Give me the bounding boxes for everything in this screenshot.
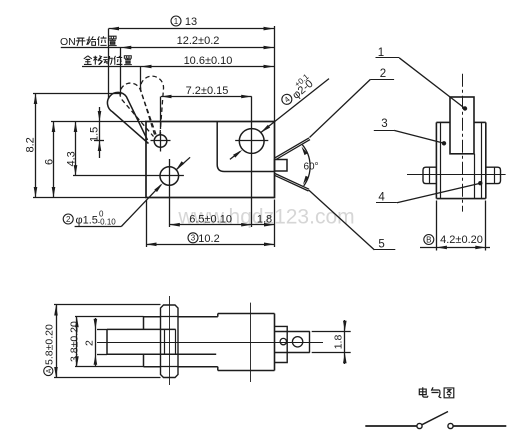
side view lever slot line bbox=[474, 154, 476, 199]
svg-text:5: 5 bbox=[378, 239, 384, 251]
extension line y=175.6 through hole 2 bbox=[73, 175, 184, 177]
electrical diagram title bbox=[419, 387, 428, 397]
front view switch body outline bbox=[146, 122, 275, 198]
hole 4 crosshair horizontal bbox=[235, 140, 268, 142]
lever dashed ON position teardrop bbox=[120, 83, 156, 136]
svg-text:φ1.5: φ1.5 bbox=[76, 215, 98, 227]
hole 2 mounting phi1.5 bbox=[160, 167, 179, 186]
side view body outline bbox=[436, 122, 485, 198]
bottom dim 3.8 line bbox=[76, 317, 78, 367]
leader diagonal from hole 4 upper-right bbox=[261, 79, 329, 133]
extension line y=93.5 lever top bbox=[33, 93, 121, 95]
extension line x=110.7 for dim 13 bbox=[108, 29, 110, 99]
svg-text:1: 1 bbox=[174, 17, 179, 26]
svg-text:1.5: 1.5 bbox=[89, 127, 101, 142]
svg-text:13: 13 bbox=[185, 16, 197, 28]
terminal small hole bbox=[280, 338, 286, 344]
label 4 phi2 rotated with tolerance bbox=[277, 72, 317, 110]
svg-text:10.2: 10.2 bbox=[198, 233, 219, 245]
leader diagonal from hole 2 upper-right arrow bbox=[176, 157, 190, 170]
svg-text:6: 6 bbox=[44, 159, 56, 165]
left dim 4.3 bbox=[75, 122, 77, 176]
leader diagonal to hole 4 lower-left arrow bbox=[230, 152, 240, 160]
bottom view plate outline bbox=[144, 316, 161, 318]
dimension 13 label with circled 1 bbox=[171, 16, 181, 26]
switch contact right bbox=[448, 423, 453, 428]
side dim B 4.2 line outside arrows bbox=[420, 247, 490, 249]
svg-text:1.8: 1.8 bbox=[333, 335, 345, 350]
leader diagonal to hole 2 lower-left arrow bbox=[121, 185, 161, 227]
bottom right dim 1.8 outside arrows bbox=[344, 320, 346, 364]
bottom dim 2 outside arrows bbox=[95, 318, 97, 366]
side view inner walls bbox=[440, 122, 442, 198]
svg-text:3.8±0.20: 3.8±0.20 bbox=[69, 321, 81, 362]
left dim 6 bbox=[53, 122, 55, 198]
svg-text:12.2±0.2: 12.2±0.2 bbox=[177, 35, 220, 47]
bottom view terminal bbox=[275, 331, 310, 333]
side dim B 4.2 extension lines bbox=[436, 201, 438, 251]
svg-text:4.2±0.20: 4.2±0.20 bbox=[440, 234, 483, 246]
internal step with fillet bbox=[217, 122, 274, 172]
side view right terminal bbox=[486, 167, 501, 183]
svg-text:60°: 60° bbox=[303, 161, 318, 172]
svg-text:8.2: 8.2 bbox=[25, 137, 37, 152]
dimension 7.2 line bbox=[161, 96, 252, 98]
dimension 12.2 line bbox=[61, 47, 274, 49]
svg-text:10.6±0.10: 10.6±0.10 bbox=[184, 55, 233, 67]
svg-text:3: 3 bbox=[381, 118, 387, 130]
bottom view horizontal centerline bbox=[97, 342, 323, 344]
terminal large hole bbox=[292, 337, 302, 347]
bottom view right step bbox=[275, 326, 288, 362]
dim 2 extension lines bbox=[97, 329, 107, 331]
bottom dim 10.2 line bbox=[146, 244, 275, 246]
side view lever bbox=[450, 97, 474, 154]
extension lines below body for 10.2 bbox=[146, 200, 148, 248]
spring wire upper position double line bbox=[275, 138, 309, 158]
extension line top at body right edge bbox=[274, 26, 276, 122]
bottom view hinge vertical centerline bbox=[169, 296, 171, 385]
short extension y=140.5 for 1.5 bbox=[94, 140, 104, 142]
svg-text:A: A bbox=[46, 368, 53, 373]
pivot hole vertical centerline / 7.2 extension bbox=[160, 97, 162, 130]
svg-text:4.3: 4.3 bbox=[66, 151, 78, 166]
lever dashed full travel position teardrop bbox=[141, 76, 164, 136]
hole 4 phi2 bbox=[239, 129, 264, 154]
wire right bbox=[453, 425, 506, 427]
svg-text:-0.10: -0.10 bbox=[98, 217, 117, 226]
switch contact left bbox=[417, 423, 422, 428]
bottom dim 6.5 and 1.8 line bbox=[169, 224, 274, 226]
left dim 8.2 bbox=[35, 94, 37, 198]
side dim B 4.2 label bbox=[424, 235, 434, 245]
bottom view main block bbox=[218, 313, 275, 315]
bottom dim A 5.8 line bbox=[56, 305, 58, 378]
extension line x=120.8 for dim 12.2 bbox=[120, 48, 122, 96]
svg-text:6.5±0.10: 6.5±0.10 bbox=[189, 214, 232, 226]
lever solid free position teardrop bbox=[107, 92, 148, 143]
side view left terminal bbox=[423, 167, 436, 183]
svg-text:ON: ON bbox=[60, 36, 76, 48]
svg-text:3: 3 bbox=[191, 234, 196, 243]
side view horizontal centerline bbox=[407, 174, 506, 176]
extension line y=197.5 body bottom left bbox=[33, 197, 146, 199]
svg-text:2: 2 bbox=[84, 340, 96, 346]
label full travel position bbox=[84, 56, 92, 65]
extension line x=141 for dim 10.6 bbox=[140, 67, 142, 90]
extension line y=121.5 body top left bbox=[51, 121, 146, 123]
bottom view lever bar bbox=[107, 328, 176, 330]
dimension 13 line bbox=[109, 28, 275, 30]
svg-text:B: B bbox=[426, 235, 431, 244]
svg-text:2: 2 bbox=[380, 68, 386, 80]
dim 1.8 extension lines bbox=[312, 331, 351, 333]
svg-text:1.8: 1.8 bbox=[257, 214, 272, 226]
common terminal tab right side bbox=[275, 160, 288, 172]
bottom view body vertical centerline bbox=[250, 303, 252, 382]
pivot hole bbox=[154, 135, 167, 148]
label 2 for hole phi1.5 with tolerance bbox=[63, 214, 73, 224]
hinge boss separation lines bbox=[161, 316, 179, 318]
hole 2 vertical centerline extension bbox=[169, 159, 171, 227]
svg-text:7.2±0.15: 7.2±0.15 bbox=[186, 85, 229, 97]
svg-text:4: 4 bbox=[378, 192, 385, 204]
dim A extension lines bbox=[54, 304, 161, 306]
dim 3.8 extension lines bbox=[75, 316, 144, 318]
left dim 1.5 outside arrows bbox=[99, 107, 101, 158]
step to main block bbox=[217, 314, 219, 317]
pivot hole crosshair horizontal bbox=[151, 140, 171, 142]
hole 4 vertical centerline extension bbox=[251, 97, 253, 228]
dimension 10.6 line bbox=[82, 66, 274, 68]
side view vertical centerline bbox=[462, 74, 464, 212]
60 degree arc with arrows bbox=[302, 145, 310, 186]
svg-text:5.8±0.20: 5.8±0.20 bbox=[44, 324, 56, 365]
spring wire lower position double line bbox=[275, 174, 309, 190]
leader underline for label 2 bbox=[75, 226, 122, 228]
switch blade bbox=[422, 412, 448, 425]
wire left bbox=[365, 425, 416, 427]
svg-text:2: 2 bbox=[66, 215, 71, 224]
bottom view hinge block with bosses bbox=[161, 305, 179, 378]
